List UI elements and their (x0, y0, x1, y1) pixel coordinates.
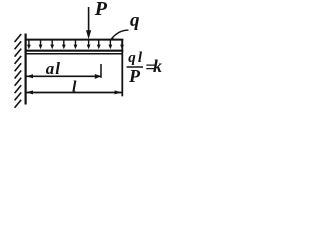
svg-text:q: q (130, 10, 140, 31)
svg-text:ql: ql (128, 50, 144, 66)
svg-text:P: P (128, 66, 141, 86)
svg-text:al: al (46, 59, 61, 78)
svg-text:k: k (153, 56, 162, 76)
svg-text:P: P (94, 0, 108, 20)
